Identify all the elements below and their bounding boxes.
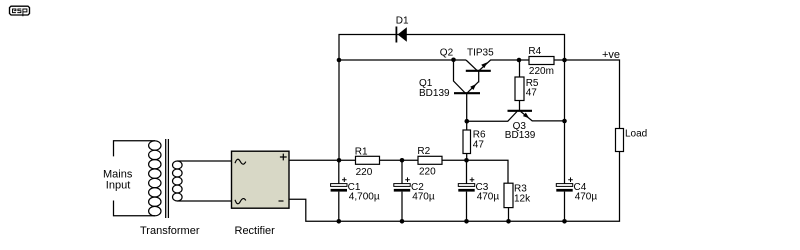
svg-text:220: 220: [356, 167, 373, 178]
svg-text:470µ: 470µ: [575, 192, 598, 203]
svg-text:+ve: +ve: [602, 49, 620, 61]
svg-text:470µ: 470µ: [412, 192, 435, 203]
svg-text:Q2: Q2: [440, 47, 454, 58]
svg-text:D1: D1: [396, 16, 409, 27]
svg-text:12k: 12k: [514, 194, 531, 205]
svg-text:4,700µ: 4,700µ: [349, 192, 380, 203]
svg-text:47: 47: [526, 87, 538, 98]
svg-text:Input: Input: [106, 180, 130, 192]
svg-text:R4: R4: [528, 46, 541, 57]
svg-text:Rectifier: Rectifier: [235, 225, 276, 237]
svg-text:R2: R2: [417, 146, 430, 157]
svg-text:220m: 220m: [529, 66, 554, 77]
svg-text:Transformer: Transformer: [140, 225, 200, 237]
svg-text:R1: R1: [355, 146, 368, 157]
svg-text:470µ: 470µ: [477, 192, 500, 203]
svg-text:BD139: BD139: [505, 130, 536, 141]
svg-text:220: 220: [419, 167, 436, 178]
svg-text:TIP35: TIP35: [467, 47, 494, 58]
svg-text:47: 47: [473, 140, 485, 151]
svg-text:Load: Load: [625, 129, 647, 140]
svg-text:BD139: BD139: [419, 88, 450, 99]
